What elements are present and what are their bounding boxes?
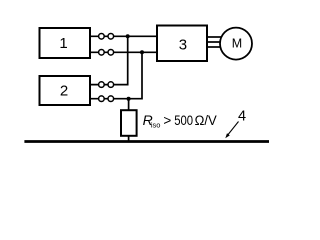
- box 1: [40, 28, 91, 58]
- wire: [90, 35, 157, 37]
- leader arrowhead: [225, 133, 230, 138]
- svg-text:2: 2: [60, 83, 68, 100]
- ground reference plane: [24, 140, 269, 143]
- wire motor phase 3: [207, 46, 222, 48]
- wire: [90, 52, 142, 98]
- svg-text:1: 1: [59, 35, 67, 52]
- svg-text:4: 4: [238, 109, 246, 125]
- node junction on second wire: [140, 50, 144, 54]
- node junction on top wire: [126, 34, 130, 38]
- box 3: [157, 26, 207, 62]
- connector contacts second wire: [99, 50, 114, 56]
- motor M: [220, 28, 252, 60]
- box 2: [40, 76, 91, 105]
- connector contacts third wire: [99, 82, 114, 88]
- wire motor phase 1: [207, 36, 222, 38]
- wire: [90, 51, 157, 53]
- wire resistor top lead: [128, 99, 130, 111]
- leader line for 4: [227, 122, 239, 136]
- svg-text:Ω/V: Ω/V: [195, 113, 217, 128]
- wire resistor bottom lead: [128, 136, 130, 141]
- connector contacts fourth wire: [99, 96, 114, 102]
- wire motor phase 2: [207, 41, 221, 43]
- node junction resistor tap: [127, 97, 131, 101]
- wire: [90, 36, 128, 84]
- svg-text:M: M: [232, 37, 242, 51]
- resistor Riso: [121, 110, 137, 136]
- connector contacts top wire: [99, 34, 114, 40]
- svg-text:3: 3: [179, 37, 187, 54]
- svg-text:500: 500: [174, 113, 193, 128]
